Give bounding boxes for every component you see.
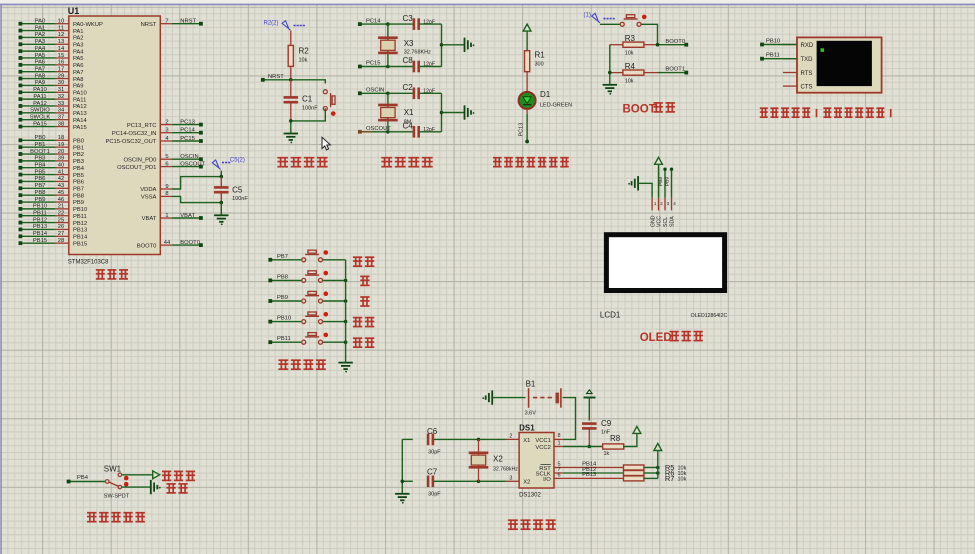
svg-text:41: 41 (58, 169, 64, 175)
power arrow of pullups (654, 444, 662, 451)
svg-text:PB10: PB10 (33, 204, 47, 210)
svg-text:OSCIN: OSCIN (180, 154, 198, 160)
node PB10 terminal (268, 316, 301, 324)
pin PB11 (22) with wire and node PB11 (19, 211, 87, 220)
svg-text:PA10: PA10 (73, 90, 87, 96)
label 设置 (353, 257, 374, 266)
DS1 value label DS1302 (519, 492, 541, 498)
junction X2 bottom (477, 480, 506, 484)
svg-text:SCL: SCL (663, 217, 669, 227)
OLED ground symbol (628, 176, 638, 190)
svg-text:6: 6 (557, 472, 560, 478)
svg-text:9: 9 (165, 184, 168, 190)
svg-text:PB5: PB5 (35, 169, 46, 175)
wire R1 to D1 (526, 72, 528, 93)
junction at crystal lead (386, 92, 390, 96)
svg-text:OSCIN: OSCIN (366, 88, 384, 94)
push button K5 (302, 333, 323, 345)
svg-text:CTS: CTS (801, 85, 813, 91)
svg-text:C5(2): C5(2) (230, 158, 245, 164)
push button K3 (302, 291, 323, 303)
svg-text:46: 46 (58, 197, 64, 203)
svg-text:BOOT0: BOOT0 (137, 243, 157, 249)
node PB8 wire to SCL (658, 168, 667, 198)
svg-text:PA5: PA5 (35, 53, 46, 59)
svg-text:PB15: PB15 (73, 241, 87, 247)
svg-text:PA2: PA2 (73, 36, 84, 42)
pin OSCIN_PD0 (5) node OSCIN (124, 154, 203, 163)
wire VSSA to C5 bottom (172, 196, 222, 202)
wire bus to ground (609, 73, 611, 85)
title 主芯片 (96, 270, 128, 279)
svg-text:SWCLK: SWCLK (30, 114, 51, 120)
switch SW1 SW-SPDT (104, 465, 130, 500)
svg-text:39: 39 (58, 156, 64, 162)
svg-text:PC14-OSC32_IN: PC14-OSC32_IN (112, 131, 156, 137)
svg-text:BOOT0: BOOT0 (665, 39, 685, 45)
pin PA2 (12) with wire and node PA2 (19, 32, 84, 41)
wire throw2 to ground (122, 486, 151, 488)
svg-text:37: 37 (58, 114, 64, 120)
pin TXD (783, 57, 813, 63)
junction pullup bus (656, 466, 660, 470)
pin VCC2 (1) of DS1 (535, 441, 562, 451)
pin RXD (783, 43, 814, 49)
svg-text:11: 11 (58, 25, 64, 31)
pin PB5 (41) with wire and node PB5 (19, 169, 84, 178)
virtual terminal body (797, 37, 882, 92)
svg-text:PA13: PA13 (73, 111, 87, 117)
DS1 reference label (519, 424, 535, 433)
pin PC13_RTC (2) node PC13 (127, 119, 203, 128)
title 复位电路 (277, 158, 327, 167)
capacitor C6 30pF (402, 427, 478, 456)
svg-text:PB5: PB5 (73, 173, 84, 179)
svg-text:X1: X1 (523, 438, 530, 444)
ground of BOOT circuit (603, 85, 617, 95)
button K5 actuator dot (324, 333, 329, 338)
svg-text:NRST: NRST (180, 19, 196, 25)
junction C1 bottom (289, 119, 293, 123)
svg-text:100nF: 100nF (232, 196, 248, 202)
pin VBAT (1) node VBAT (142, 213, 203, 222)
wire R3 to R4 bus (609, 45, 611, 73)
svg-text:45: 45 (58, 190, 64, 196)
pin PB1 (19) with wire and node PB1 (19, 142, 84, 151)
MCU U1 STM32F103C8 body (69, 16, 161, 255)
svg-text:PA12: PA12 (33, 101, 47, 107)
svg-text:PB12: PB12 (73, 221, 87, 227)
svg-text:2: 2 (509, 433, 512, 439)
svg-text:PC14: PC14 (180, 128, 195, 134)
svg-text:PB12: PB12 (33, 217, 47, 223)
svg-text:R8: R8 (610, 434, 621, 443)
wire GND pin to ground (638, 183, 652, 198)
pin PC15-OSC32_OUT (4) node PC15 (105, 136, 202, 145)
junction at crystal lead (386, 130, 390, 134)
svg-text:PC15-OSC32_OUT: PC15-OSC32_OUT (105, 139, 156, 145)
svg-text:30: 30 (58, 80, 64, 86)
ground right of X1 (465, 105, 475, 119)
wire ground to battery (492, 397, 525, 399)
pin PB7 (43) with wire and node PB7 (19, 183, 84, 192)
svg-text:21: 21 (58, 204, 64, 210)
pin PA3 (13) with wire and node PA3 (19, 39, 84, 48)
pin X2 (3) of DS1 (506, 475, 531, 485)
label 未触发 (162, 471, 195, 480)
pin SDA (4) of LCD1 (670, 198, 677, 227)
svg-text:PB1: PB1 (35, 142, 46, 148)
svg-text:BOOT: BOOT (623, 103, 656, 115)
node PC13 (vertical label) (519, 123, 529, 144)
junction key bus (344, 320, 348, 324)
wire button K2 to bus (323, 279, 346, 281)
left bus C6/C7 (401, 439, 403, 493)
svg-text:C3: C3 (403, 14, 414, 23)
pin PA0-WKUP (10) with wire and node PA0 (19, 19, 103, 28)
capacitor C5 100nF (214, 177, 248, 203)
svg-text:3: 3 (509, 475, 512, 481)
svg-text:8M: 8M (404, 119, 412, 125)
wire button to BOOT0 node (641, 24, 658, 44)
wire VCC2 to R8 (563, 446, 603, 448)
wire VDDA to C5 top (172, 177, 222, 189)
resistor R2 10k (288, 45, 309, 66)
svg-text:VBAT: VBAT (180, 213, 195, 219)
crystal X2 32.768kHz (469, 439, 519, 481)
svg-text:PB13: PB13 (33, 224, 47, 230)
svg-text:LCD1: LCD1 (600, 311, 621, 320)
svg-text:B1: B1 (526, 379, 536, 388)
push button K4 (302, 312, 323, 324)
svg-text:PB10: PB10 (73, 207, 87, 213)
LCD1 reference label (600, 311, 621, 320)
pin RST (5) of DS1 (539, 462, 563, 472)
node PB9 wire to SDA (665, 168, 674, 198)
title 程序运行指示灯 (493, 158, 569, 167)
svg-text:PB8: PB8 (35, 190, 46, 196)
title 串口3窗口（模拟语音播报） (760, 108, 891, 117)
svg-text:BOOT1: BOOT1 (30, 149, 50, 155)
bus right of C2/C4 (441, 93, 443, 132)
wire C5 to ground (220, 203, 222, 216)
DS1302 chip DS1 body (519, 433, 554, 489)
pin GND (1) of LCD1 (650, 198, 657, 227)
svg-text:PB1: PB1 (73, 145, 84, 151)
wire C2 to bus (420, 92, 442, 94)
wire to capacitor C2 (388, 92, 413, 94)
pin PB3 (39) with wire and node PB3 (19, 156, 84, 165)
svg-text:PB11: PB11 (766, 53, 780, 59)
crystal X1 8M (378, 93, 414, 132)
capacitor C3 12pF (403, 14, 436, 30)
pin VCC (2) of LCD1 (657, 198, 664, 227)
svg-text:D1: D1 (540, 90, 551, 99)
voltage probe (1) (584, 13, 615, 23)
svg-text:X2: X2 (523, 480, 530, 486)
svg-text:VCC1: VCC1 (535, 438, 550, 444)
svg-text:30pF: 30pF (428, 450, 441, 456)
svg-text:R1: R1 (535, 51, 546, 60)
svg-text:PB0: PB0 (73, 139, 84, 145)
ground left of B1 (482, 390, 492, 404)
title BOOT电路 (623, 103, 675, 115)
svg-text:PB4: PB4 (77, 475, 89, 481)
svg-text:U1: U1 (68, 6, 80, 16)
pin PB4 (40) with wire and node PB4 (19, 163, 85, 172)
wire to capacitor C3 (388, 23, 413, 25)
node PB12 wire (563, 467, 624, 473)
svg-text:PA8: PA8 (73, 77, 84, 83)
node OSCOUT terminal (358, 126, 391, 134)
svg-text:PC13: PC13 (180, 119, 195, 125)
pin PB15 (28) with wire and node PB15 (19, 238, 88, 247)
svg-text:10: 10 (58, 19, 64, 25)
node PB11 terminal (268, 336, 301, 344)
svg-text:15: 15 (58, 53, 64, 59)
svg-text:PA8: PA8 (35, 73, 46, 79)
pin PB14 (27) with wire and node PB14 (19, 231, 88, 240)
svg-text:PA0: PA0 (35, 19, 46, 25)
svg-text:C6: C6 (427, 427, 438, 436)
svg-text:PB14: PB14 (33, 231, 48, 237)
svg-text:5: 5 (165, 154, 168, 160)
wire probe to button (600, 23, 620, 25)
svg-text:18: 18 (58, 135, 64, 141)
svg-text:BOOT0: BOOT0 (180, 240, 200, 246)
ground of key circuit (338, 363, 352, 373)
wire to capacitor C4 (388, 131, 413, 133)
svg-text:PB8: PB8 (73, 193, 84, 199)
svg-text:RTS: RTS (801, 71, 813, 77)
svg-text:PA6: PA6 (35, 60, 46, 66)
pullup bus to power (657, 451, 659, 479)
title 晶振电路 (381, 158, 432, 167)
wire C3 to bus (420, 23, 442, 25)
svg-text:32.768kHz: 32.768kHz (493, 467, 518, 473)
svg-text:PA14: PA14 (73, 118, 88, 124)
pin I/O (6) of DS1 (543, 472, 563, 482)
svg-text:14: 14 (58, 46, 65, 52)
wire button K4 to bus (323, 321, 346, 323)
pin PA9 (30) with wire and node PA9 (19, 80, 84, 89)
svg-text:1k: 1k (604, 451, 610, 457)
svg-text:PA6: PA6 (73, 63, 84, 69)
svg-text:12: 12 (58, 32, 64, 38)
svg-text:OLED: OLED (640, 332, 672, 344)
svg-text:DS1302: DS1302 (519, 492, 541, 498)
pin PB9 (46) with wire and node PB9 (19, 197, 84, 206)
svg-text:PA4: PA4 (73, 49, 84, 55)
pin PA1 (11) with wire and node PA1 (19, 25, 84, 34)
svg-text:42: 42 (58, 176, 64, 182)
pin PA6 (16) with wire and node PA6 (19, 60, 84, 69)
wire button K5 to bus (323, 341, 346, 343)
svg-text:3.6V: 3.6V (525, 411, 537, 417)
svg-text:X3: X3 (404, 39, 414, 48)
node BOOT0 terminal (658, 39, 689, 47)
svg-text:OSCOUT_PD1: OSCOUT_PD1 (117, 165, 156, 171)
title 时钟模块 (508, 520, 556, 529)
power arrow right of R8 (633, 426, 641, 433)
svg-text:STM32F103C8: STM32F103C8 (68, 260, 109, 266)
svg-text:10k: 10k (299, 58, 308, 64)
svg-text:RXD: RXD (801, 43, 814, 49)
svg-text:PA7: PA7 (35, 66, 46, 72)
svg-text:PB3: PB3 (35, 156, 46, 162)
svg-text:NRST: NRST (268, 74, 284, 80)
LED D1 LED-GREEN (519, 90, 573, 109)
svg-text:PA11: PA11 (33, 94, 46, 100)
capacitor C9 1nF (582, 419, 612, 447)
svg-text:PB8: PB8 (277, 274, 288, 280)
pin NRST (7) node NRST (141, 19, 203, 28)
resistor R4 10k (610, 62, 658, 85)
svg-text:PB11: PB11 (73, 214, 87, 220)
node PB10 to RXD (760, 39, 796, 47)
pin SCLK (7) of DS1 (536, 467, 563, 477)
pin RTS (783, 71, 812, 77)
svg-text:SDA: SDA (670, 216, 676, 227)
svg-text:PC14: PC14 (366, 18, 381, 24)
button K3 actuator dot (324, 291, 329, 296)
pin PC14-OSC32_IN (3) node PC14 (112, 128, 203, 137)
svg-text:GND: GND (650, 215, 656, 227)
node PB14 wire (563, 461, 624, 467)
svg-text:PB9: PB9 (35, 197, 46, 203)
wire probe to R2 (290, 31, 292, 46)
pin PB2 (20) with wire and node BOOT1 (19, 149, 84, 158)
voltage probe R2(2) (264, 21, 305, 31)
svg-text:SW1: SW1 (104, 465, 122, 474)
wire C8 to bus (420, 66, 442, 68)
resistor R5 10k (624, 463, 687, 472)
pin X1 (2) of DS1 (506, 433, 531, 443)
title OLED显示屏 (640, 332, 703, 344)
label 加 (360, 276, 369, 285)
pin PB0 (18) with wire and node PB0 (19, 135, 84, 144)
svg-text:28: 28 (58, 238, 64, 244)
capacitor C1 100nF (284, 80, 319, 121)
svg-text:3: 3 (165, 128, 168, 134)
ground right of SW1 (151, 480, 161, 494)
svg-text:33: 33 (58, 101, 64, 107)
LCD1 value label OLED12864I2C (691, 313, 728, 319)
node PB8 terminal (268, 274, 301, 282)
junction bus2 to ground (440, 111, 465, 115)
svg-text:C5: C5 (232, 186, 243, 195)
key common bus (345, 260, 347, 363)
wire to capacitor C8 (388, 66, 413, 68)
svg-text:PB10: PB10 (277, 316, 291, 322)
pin PB12 (25) with wire and node PB12 (19, 217, 88, 226)
node PB9 terminal (268, 295, 301, 303)
junction key bus (344, 279, 348, 283)
resistor R3 10k (610, 34, 658, 57)
svg-text:38: 38 (58, 121, 64, 127)
svg-text:PB6: PB6 (73, 180, 84, 186)
junction at C5 top (220, 175, 224, 179)
svg-text:PB9: PB9 (665, 177, 671, 186)
wire NRST to button (291, 80, 326, 84)
svg-text:X2: X2 (493, 455, 503, 464)
svg-text:VCC: VCC (657, 216, 663, 227)
junction at crystal lead (386, 65, 390, 69)
wire R8 to power arrow (624, 434, 637, 447)
svg-text:1: 1 (165, 213, 168, 219)
ground below C5 (214, 215, 228, 225)
pin PA11 (32) with wire and node PA11 (19, 94, 87, 103)
pin OSCOUT_PD1 (6) node OSCOUT (117, 161, 205, 170)
node BOOT1 terminal (658, 67, 689, 75)
push button (reset) (323, 90, 335, 111)
label 触发 (167, 484, 188, 493)
wire button K3 to bus (323, 300, 346, 302)
junction pullup bus (656, 471, 660, 475)
wire C4 to bus (420, 131, 442, 133)
junction C9 VCC2 (588, 445, 592, 449)
svg-text:PA1: PA1 (73, 29, 84, 35)
svg-text:PB8: PB8 (658, 177, 664, 186)
node PB4 terminal (67, 475, 105, 483)
pin PA8 (29) with wire and node PA8 (19, 73, 84, 82)
wire probe to node (220, 171, 222, 177)
pin PA10 (31) with wire and node PA10 (19, 87, 87, 96)
svg-text:PA3: PA3 (35, 39, 46, 45)
svg-text:PA10: PA10 (33, 87, 47, 93)
pin PA14 (37) with wire and node SWCLK (19, 114, 88, 123)
node PB11 to TXD (760, 53, 796, 61)
svg-text:13: 13 (58, 39, 64, 45)
resistor R7 10k (624, 474, 687, 483)
svg-text:PB11: PB11 (277, 336, 291, 342)
wire battery to VCC1 (563, 398, 576, 440)
wire button K1 to bus (323, 259, 346, 261)
junction at C5 bottom (220, 201, 224, 205)
svg-text:PA9: PA9 (35, 80, 46, 86)
svg-text:PB7: PB7 (277, 254, 288, 260)
svg-text:PB2: PB2 (73, 152, 84, 158)
resistor R8 1k (603, 434, 624, 457)
svg-text:43: 43 (58, 183, 64, 189)
svg-text:PB3: PB3 (73, 159, 84, 165)
node PC15 terminal (358, 61, 388, 69)
svg-text:PA5: PA5 (73, 56, 84, 62)
svg-text:R2(2): R2(2) (264, 21, 279, 27)
svg-text:R7: R7 (665, 474, 675, 483)
pin SCL (3) of LCD1 (663, 198, 670, 227)
svg-text:PB14: PB14 (73, 234, 88, 240)
ground of reset circuit (284, 134, 298, 144)
button K4 actuator dot (324, 312, 329, 317)
svg-text:PA12: PA12 (73, 104, 87, 110)
svg-text:C9: C9 (601, 419, 612, 428)
pin PB8 (45) with wire and node PB8 (19, 190, 84, 199)
svg-text:30pF: 30pF (428, 492, 441, 498)
svg-text:PB15: PB15 (33, 238, 47, 244)
bus right of C3/C8 (441, 24, 443, 66)
wire throw1 to power arrow (122, 474, 152, 476)
svg-text:1nF: 1nF (601, 430, 610, 436)
push button K1 (302, 250, 323, 262)
svg-text:10k: 10k (625, 51, 634, 57)
battery B1 3.6V (525, 379, 561, 416)
svg-text:27: 27 (58, 231, 64, 237)
svg-text:PB6: PB6 (35, 176, 46, 182)
svg-text:PB9: PB9 (73, 200, 84, 206)
svg-text:PB11: PB11 (33, 211, 47, 217)
pin PB13 (26) with wire and node PB13 (19, 224, 88, 233)
